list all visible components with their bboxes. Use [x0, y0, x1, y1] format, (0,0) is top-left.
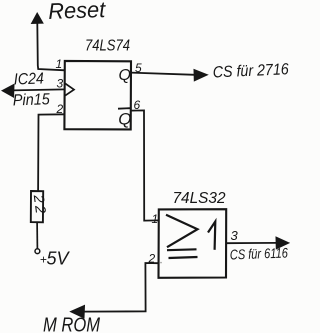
wire: Reset vertical then right into pin 1: [37, 23, 65, 71]
or-gate U2 74LS32 box: [159, 209, 227, 278]
svg-text:1: 1: [152, 212, 159, 226]
svg-text:74LS32: 74LS32: [173, 190, 226, 207]
wire: Q pin 5 to CS fur 2716: [131, 73, 195, 75]
terminal circle +5V: [35, 249, 40, 254]
clock input triangle on pin 3: [65, 84, 74, 96]
arrowhead CS fur 2716: [194, 70, 208, 81]
wire: Q-bar pin 6 right, down, into OR pin 1: [131, 110, 159, 220]
svg-text:22: 22: [30, 193, 49, 217]
wire: OR pin 3 output to CS fur 6116: [226, 242, 277, 244]
symbol >=1 inside OR gate: [166, 215, 198, 247]
svg-text:Q: Q: [119, 67, 131, 84]
svg-text:CS für 2716: CS für 2716: [212, 61, 289, 81]
speck near OR pin2: [160, 262, 162, 264]
svg-text:3: 3: [231, 228, 239, 243]
wire: resistor to +5V terminal: [36, 222, 38, 248]
net Reset: arrow pointing up: [32, 13, 44, 24]
wire: pin 2 from box left then down to resistor: [38, 114, 65, 191]
svg-text:Pin15: Pin15: [13, 91, 51, 109]
svg-text:3: 3: [57, 77, 64, 91]
svg-text:1: 1: [56, 57, 63, 71]
net IC24 Pin15: arrow pointing left into pin 3: [2, 84, 14, 97]
svg-text:5V: 5V: [47, 249, 71, 269]
svg-text:CS für 6116: CS für 6116: [230, 244, 289, 262]
resistor R1 body: [31, 191, 43, 222]
arrowhead CS fur 6116: [276, 237, 289, 249]
svg-text:M ROM: M ROM: [43, 315, 100, 333]
wire: OR pin 2 from box left, down, left to M ROM: [84, 263, 159, 312]
svg-text:Q: Q: [118, 110, 131, 129]
flip-flop U1 74LS74 box: [64, 61, 131, 129]
svg-text:IC24: IC24: [14, 70, 45, 88]
svg-text:74LS74: 74LS74: [85, 38, 130, 55]
arrowhead M ROM pointing left: [71, 305, 85, 318]
wire: pin 3 horizontal: [12, 89, 65, 90]
svg-text:Reset: Reset: [48, 0, 108, 24]
